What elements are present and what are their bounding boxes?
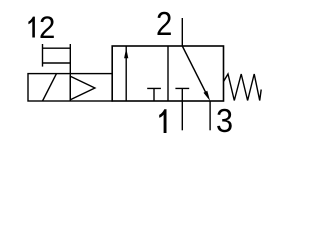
port 1 line bbox=[181, 101, 183, 130]
port 2 line bbox=[181, 18, 183, 46]
pilot amplifier triangle bbox=[70, 76, 95, 100]
return spring bbox=[224, 74, 262, 101]
pilot port 12 symbol right vertical (to block) bbox=[69, 44, 71, 74]
label 1 (port 1 digit glyph) bbox=[159, 109, 166, 133]
flow path 2->3 diagonal bbox=[182, 46, 206, 94]
valve body (3/2 valve, two position squares) bbox=[112, 46, 223, 101]
flow arrow 1->2 (actuated position, vertical line) bbox=[125, 47, 127, 102]
solenoid block divider bbox=[69, 74, 71, 101]
label 2 bbox=[156, 7, 172, 40]
solenoid coil diagonal bbox=[43, 74, 57, 101]
pilot port 12 symbol left vertical bbox=[42, 44, 44, 67]
position divider bbox=[167, 46, 169, 101]
solenoid/pilot block bbox=[28, 74, 112, 101]
label 3 bbox=[216, 104, 233, 137]
blocked port T (right square) bbox=[175, 88, 189, 101]
pilot port 12 symbol bottom rung bbox=[43, 62, 71, 64]
label 12 (digit 2) bbox=[39, 12, 55, 44]
label 12 (digit 1 glyph) bbox=[28, 17, 35, 38]
blocked port T (left square) bbox=[147, 88, 161, 101]
flow path 2->3 arrowhead bbox=[204, 91, 211, 101]
flow arrow 1->2 arrowhead bbox=[124, 48, 128, 58]
port 3 line bbox=[209, 101, 211, 130]
pilot port 12 symbol top rung bbox=[43, 47, 71, 49]
